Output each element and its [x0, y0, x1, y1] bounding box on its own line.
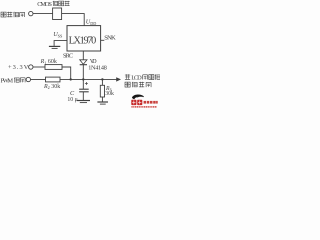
label 控制电路 (control circuit) line 2	[125, 82, 151, 87]
label 控制信号 (control signal)	[1, 12, 25, 17]
svg-text:SRC: SRC	[63, 53, 73, 60]
wire rail to resistor R3	[101, 79, 103, 85]
watermark logo red url line	[131, 106, 157, 108]
wire diode cathode to output rail	[82, 65, 84, 80]
svg-text:10 μ: 10 μ	[67, 97, 77, 103]
op-amp U1 LX1970 box	[67, 26, 101, 51]
svg-text:30k: 30k	[105, 91, 114, 97]
wire +3.3V terminal to R1	[33, 66, 45, 68]
watermark logo red seal characters	[131, 100, 142, 105]
ground U_SS	[49, 46, 60, 48]
junction R3 node	[101, 78, 103, 80]
wire U_SS pin to ground	[54, 41, 67, 46]
svg-text:SNK: SNK	[104, 35, 116, 42]
svg-text:1N4148: 1N4148	[88, 65, 107, 72]
label CMOS门电路 (CMOS gate circuit)	[37, 1, 69, 8]
watermark logo small red name text	[144, 101, 158, 104]
terminal +3.3V	[29, 65, 33, 69]
wire SRC pin to diode anode	[82, 51, 84, 60]
wire R3 to ground	[101, 97, 103, 102]
label 去LCD背光源 (to LCD backlight) line 1	[125, 74, 160, 81]
svg-text:PWM: PWM	[1, 77, 14, 84]
svg-text:R2 30k: R2 30k	[43, 84, 60, 90]
wire capacitor to ground	[82, 92, 84, 100]
junction diode/cap node	[82, 78, 84, 80]
pin stub SNK	[101, 39, 105, 41]
resistor R1	[45, 65, 62, 70]
wire PWM terminal to R2	[31, 79, 46, 81]
resistor R3	[100, 85, 104, 97]
wire R1 to junction node	[62, 67, 71, 79]
junction R1/R2 node	[70, 78, 72, 80]
polarity + of capacitor C	[85, 82, 88, 85]
watermark logo cap icon	[132, 94, 144, 99]
ground capacitor C	[77, 101, 90, 103]
svg-text:CMOS: CMOS	[37, 1, 52, 8]
ground R3	[97, 102, 108, 104]
svg-text:+3.3V: +3.3V	[8, 64, 29, 71]
diode VD 1N4148	[80, 60, 87, 65]
wire CMOS box to U_DD pin of LX1970	[62, 14, 85, 26]
capacitor C plates	[79, 89, 89, 92]
wire output rail	[60, 78, 117, 80]
svg-text:LCD: LCD	[131, 75, 142, 82]
terminal 控制信号 input	[29, 11, 33, 15]
wire terminal to CMOS gate box	[33, 13, 53, 15]
svg-text:LX1970: LX1970	[69, 35, 97, 46]
terminal PWM input	[26, 77, 30, 81]
wire rail to capacitor C	[82, 79, 84, 89]
arrow to LCD backlight control circuit	[116, 77, 121, 81]
label PWM信号 (PWM signal)	[1, 77, 26, 84]
CMOS gate box	[53, 8, 62, 20]
resistor R2	[46, 77, 61, 82]
